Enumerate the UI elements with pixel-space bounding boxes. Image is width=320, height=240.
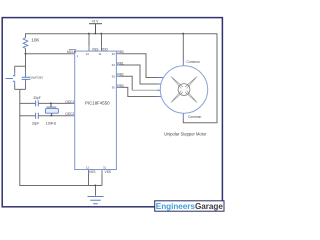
- svg-text:10K: 10K: [31, 37, 40, 42]
- svg-text:VSS: VSS: [89, 170, 96, 174]
- svg-text:12: 12: [86, 52, 90, 56]
- svg-text:36: 36: [112, 86, 116, 90]
- svg-text:OSC1: OSC1: [65, 100, 74, 104]
- svg-text:RB0: RB0: [117, 50, 124, 54]
- svg-text:PIC18F4550: PIC18F4550: [85, 100, 110, 105]
- svg-text:34: 34: [112, 63, 116, 67]
- svg-text:35: 35: [112, 74, 116, 78]
- svg-text:31: 31: [103, 165, 107, 169]
- svg-text:RB2: RB2: [117, 73, 124, 77]
- svg-text:RB3: RB3: [117, 84, 124, 88]
- svg-text:EngineersGarage: EngineersGarage: [156, 202, 224, 211]
- svg-text:MCLR: MCLR: [67, 50, 77, 54]
- svg-text:OSC2: OSC2: [65, 112, 74, 116]
- svg-text:33pF: 33pF: [33, 96, 41, 100]
- svg-text:RB1: RB1: [117, 62, 124, 66]
- svg-text:10uF/25V: 10uF/25V: [30, 76, 43, 80]
- svg-text:VSS: VSS: [105, 170, 112, 174]
- svg-text:Common: Common: [187, 60, 201, 64]
- svg-text:VDD: VDD: [101, 47, 109, 51]
- svg-text:33: 33: [112, 52, 116, 56]
- svg-text:12MHz: 12MHz: [46, 121, 57, 125]
- svg-text:11: 11: [98, 52, 101, 56]
- svg-text:12: 12: [86, 165, 90, 169]
- svg-text:Common: Common: [188, 115, 202, 119]
- svg-text:Unipolar Stepper Motor: Unipolar Stepper Motor: [164, 132, 207, 137]
- svg-text:+5 V: +5 V: [91, 19, 99, 23]
- svg-text:VSS: VSS: [92, 47, 99, 51]
- svg-text:33pF: 33pF: [32, 121, 40, 125]
